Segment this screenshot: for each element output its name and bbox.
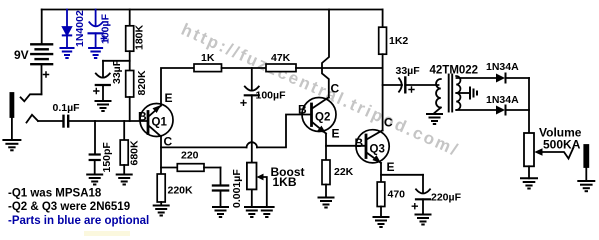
note text [8,188,149,227]
transistor Q3 [355,116,395,175]
svg-text:9V: 9V [14,48,29,62]
ground (220uF) [416,215,431,225]
resistor 180K [126,10,146,71]
ground (blue 100uF) [89,48,102,58]
resistor 680K [120,121,140,175]
svg-text:1N4002: 1N4002 [74,10,86,47]
resistor 22K [322,146,354,198]
watermark [84,20,462,236]
svg-text:B: B [298,103,307,117]
capacitor 33uF [94,59,130,101]
svg-text:100µF: 100µF [256,90,287,102]
svg-text:http://fuzzcentral.tripod.com/: http://fuzzcentral.tripod.com/ [178,20,462,160]
wire 47K to 1K2 node [296,67,383,69]
wire D2 to volume node [506,77,530,79]
wire D3 to volume node [506,109,530,111]
svg-text:Q2: Q2 [315,112,330,124]
ground (Boost pot) [245,207,259,217]
wire Q3 emitter node [381,163,423,175]
ground (220K) [154,206,169,216]
wire secondary top to D2 [457,77,497,79]
ground (output jack) [578,181,594,191]
ground (1N4002, blue) [61,48,74,58]
wire Q2 emitter to Q3 base [326,134,366,146]
svg-text:220: 220 [181,150,199,162]
svg-text:220K: 220K [168,185,194,197]
diode D2 1N34A (top) [486,61,519,83]
wire 1K to 47K [222,67,267,69]
output jack [584,145,588,181]
svg-text:150pF: 150pF [101,142,113,173]
svg-text:22K: 22K [334,166,354,178]
wire input to 0.1uF [38,120,63,122]
transformer 42TM022 [430,65,479,113]
ground (transformer center tap, rotated) [470,88,477,99]
capacitor 100uF (blue, optional) [89,10,112,49]
svg-text:500KA: 500KA [543,137,581,151]
svg-text:-Q2 & Q3 were 2N6519: -Q2 & Q3 were 2N6519 [8,201,130,213]
svg-text:47K: 47K [271,52,291,64]
svg-text:E: E [165,91,173,105]
wire volume wiper to output plug [542,148,574,159]
svg-text:820K: 820K [136,70,148,96]
input jack [10,93,41,140]
diode D3 1N34A (bottom) [486,94,519,115]
svg-text:Q3: Q3 [370,144,385,156]
wire Q1 collector [160,137,162,175]
resistor 220 [161,150,221,172]
transistor Q2 [298,10,340,141]
svg-text:1N34A: 1N34A [486,61,519,73]
capacitor 33uF (output) [383,65,439,92]
svg-text:0.1µF: 0.1µF [53,102,81,114]
wire collector node to crossover [161,146,247,148]
resistor 470 [377,175,405,217]
wire 0.1uF to Q1 base [69,120,148,122]
ground (470) [374,217,389,227]
ground (0.001uF) [213,207,228,217]
resistor 1K [194,52,222,72]
svg-text:1N34A: 1N34A [486,94,519,106]
svg-text:E: E [387,160,395,174]
svg-text:1KB: 1KB [273,175,297,189]
svg-text:33µF: 33µF [396,65,421,77]
transistor Q1 [138,91,173,149]
capacitor 0.1uF [53,102,81,127]
svg-text:100µF: 100µF [100,13,112,44]
wire top supply rail [42,9,383,11]
wire Q1 emitter to supply node [161,68,194,106]
svg-text:C: C [331,82,340,96]
svg-text:680K: 680K [129,140,141,166]
resistor 1K2 [379,10,409,55]
svg-text:B: B [355,136,364,150]
svg-text:180K: 180K [134,24,146,50]
ground (150pF) [87,175,102,185]
ground (Volume) [521,178,537,188]
wire supply column to Q3 collector [382,54,384,130]
svg-text:0.001µF: 0.001µF [231,169,243,208]
resistor 47K [266,52,296,72]
capacitor 220uF [412,175,461,215]
battery 9V [14,10,52,95]
svg-text:42TM022: 42TM022 [430,65,479,77]
ground (Boost wiper) [260,207,274,217]
svg-text:-Parts in blue are optional: -Parts in blue are optional [8,215,149,227]
ground (transformer primary) [427,114,442,124]
svg-text:33µF: 33µF [111,59,123,84]
svg-text:Q1: Q1 [152,117,168,129]
ground (680K) [117,175,132,185]
svg-text:B: B [138,110,147,124]
potentiometer Volume 500KA [524,126,582,179]
ground (22K) [319,198,334,208]
capacitor 0.001uF [213,168,243,209]
diode D1 1N4002 (blue, optional) [63,10,86,49]
capacitor 100uF (coupling) [241,68,286,163]
ground (input jack) [3,140,20,150]
wire crossover to Q2 base [257,115,312,148]
svg-text:C: C [164,135,173,149]
svg-text:E: E [332,127,340,141]
resistor 220K [157,174,193,206]
svg-text:1K: 1K [201,52,215,64]
svg-text:220µF: 220µF [431,192,462,204]
svg-text:1K2: 1K2 [389,35,408,47]
svg-text:470: 470 [388,189,406,201]
resistor 820K [126,70,148,121]
capacitor 150pF [90,121,113,175]
svg-text:-Q1 was MPSA18: -Q1 was MPSA18 [8,188,102,200]
potentiometer Boost 1KB [247,163,305,207]
svg-text:C: C [384,116,393,130]
wire secondary bottom to D3 [457,109,497,111]
wire crossover hump [247,142,257,147]
ground (33uF) [96,101,111,111]
wire diode node to Volume pot [528,78,530,133]
